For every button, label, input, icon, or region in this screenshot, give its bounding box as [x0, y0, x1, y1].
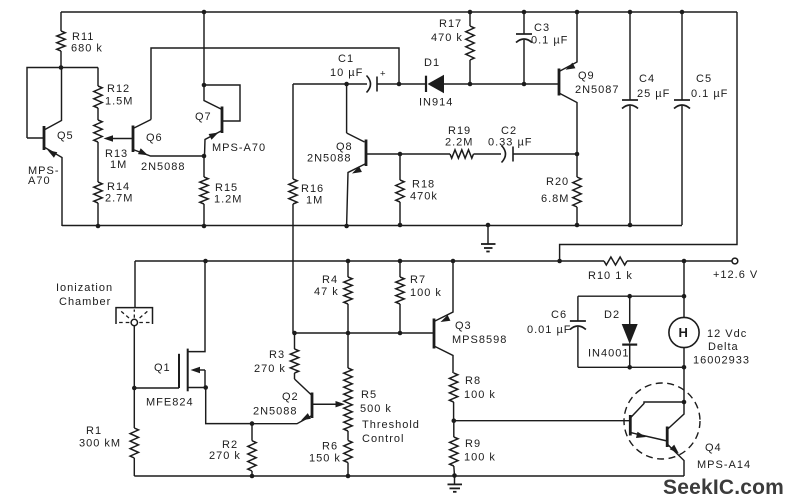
ionization chamber [56, 261, 153, 326]
svg-text:C2: C2 [501, 125, 517, 137]
svg-text:C6: C6 [551, 309, 567, 321]
svg-text:100 k: 100 k [464, 389, 496, 401]
node C1/D1/Q6-collector wire [397, 82, 402, 87]
svg-text:IN4001: IN4001 [588, 348, 629, 360]
node R8 bottom / R9 top / Q4 base wire [452, 418, 457, 423]
transistor Q1 MFE824 (MOSFET) [134, 261, 205, 409]
svg-text:Q6: Q6 [146, 132, 163, 144]
wire C6/D2 bottom branch [578, 366, 684, 368]
resistor R20 6.8M [541, 154, 581, 225]
resistor R1 300 kM [79, 388, 139, 476]
node Q1 source [203, 385, 208, 390]
node R3 top / base wire [292, 331, 297, 336]
svg-text:1M: 1M [110, 159, 127, 171]
node C4 top [628, 10, 633, 15]
svg-text:C5: C5 [696, 73, 712, 85]
wire C6/D2 top branch [578, 295, 684, 297]
svg-text:2N5088: 2N5088 [307, 153, 352, 165]
svg-text:R17: R17 [439, 18, 462, 30]
svg-text:Threshold: Threshold [362, 419, 420, 431]
capacitor C2 0.33uF [488, 125, 577, 163]
svg-text:100 k: 100 k [464, 452, 496, 464]
node Q9 emitter on +V rail [575, 10, 580, 15]
wire bottom ground rail [134, 475, 684, 477]
transistor Q4 MPS-A14 (Darlington pair) [624, 383, 751, 476]
diode D2 IN4001 [588, 296, 638, 367]
wire main vertical from top rail to Q7 [203, 12, 205, 85]
node R14 bottom on lower rail [96, 224, 101, 229]
wiper arrow from Q2 base into R5 [312, 403, 337, 405]
wiper arrow from Q6 base into R13 [107, 138, 133, 140]
node Q6/Q7 emitters / R15 top [202, 154, 207, 159]
resistor R18 470k [396, 154, 438, 225]
svg-text:R8: R8 [465, 375, 481, 387]
svg-text:MFE824: MFE824 [146, 397, 194, 409]
svg-text:A70: A70 [28, 175, 51, 187]
node horn bottom / Q4 collector branch [682, 365, 687, 370]
svg-text:R20: R20 [546, 176, 569, 188]
svg-text:300 kM: 300 kM [79, 438, 121, 450]
svg-text:+: + [380, 69, 387, 80]
resistor R3 270k [254, 333, 299, 379]
wire from R11 bottom node to Q5 base and R12 top [27, 68, 98, 139]
node R10 / horn branch [682, 259, 687, 264]
transistor Q9 2N5087 (PNP) [559, 12, 620, 154]
svg-text:D1: D1 [424, 57, 440, 69]
svg-text:R3: R3 [269, 349, 285, 361]
node D1/R17 [468, 82, 473, 87]
node R4 bottom / R5 top / base wire [346, 331, 351, 336]
ground (upper rail) [481, 223, 496, 252]
svg-text:2N5088: 2N5088 [253, 406, 298, 418]
svg-text:R11: R11 [72, 31, 94, 43]
svg-text:C1: C1 [338, 53, 354, 65]
wire R3/R4/R7 node to Q3 base [295, 332, 435, 334]
node R20 bottom on lower rail [575, 223, 580, 228]
node lower rail / chamber branch [203, 259, 208, 264]
svg-text:R14: R14 [107, 181, 130, 193]
capacitor C1 10uF [293, 53, 399, 93]
capacitor C5 0.1uF [674, 12, 728, 225]
svg-text:47 k: 47 k [314, 286, 339, 298]
node Q9 collector / R20 top [575, 152, 580, 157]
resistor R17 470k [431, 12, 474, 84]
svg-text:R19: R19 [448, 125, 471, 137]
svg-text:6.8M: 6.8M [541, 193, 569, 205]
resistor R12 1.5M [94, 68, 134, 109]
svg-text:IN914: IN914 [419, 97, 453, 109]
svg-text:MPS-A70: MPS-A70 [212, 142, 266, 154]
node R6 bottom on bottom rail [346, 474, 351, 479]
svg-text:C3: C3 [534, 22, 550, 34]
svg-text:+12.6 V: +12.6 V [713, 269, 758, 281]
transistor Q3 MPS8598 (PNP) [434, 261, 507, 373]
svg-text:C4: C4 [639, 73, 655, 85]
node Q3 emitter on +12.6V rail [451, 259, 456, 264]
transistor Q2 2N5088 (NPN, mirrored) [252, 379, 345, 424]
svg-text:MPS-A14: MPS-A14 [697, 459, 751, 471]
capacitor C6 0.01uF [527, 296, 586, 367]
svg-text:2.7M: 2.7M [105, 193, 133, 205]
node Q4 collectors [682, 400, 687, 405]
svg-text:100 k: 100 k [410, 287, 442, 299]
node C5 top [680, 10, 685, 15]
resistor R10 1k [588, 257, 633, 282]
svg-text:Q2: Q2 [282, 391, 299, 403]
wire R8/R9 node to Q4 base [454, 420, 631, 422]
svg-text:R5: R5 [361, 389, 377, 401]
node R9 bottom / ground [452, 473, 457, 478]
svg-text:R6: R6 [322, 441, 338, 453]
svg-text:1.5M: 1.5M [105, 96, 133, 108]
svg-text:270 k: 270 k [209, 450, 241, 462]
node C3 top on +V rail [522, 10, 527, 15]
svg-text:R1: R1 [86, 425, 102, 437]
node horn top branch [682, 294, 687, 299]
svg-text:R9: R9 [465, 438, 481, 450]
svg-text:2.2M: 2.2M [445, 137, 473, 149]
svg-text:2N5088: 2N5088 [141, 161, 186, 173]
svg-text:1.2M: 1.2M [214, 194, 242, 206]
node R11 bottom / Q5 collector [59, 65, 64, 70]
svg-text:R7: R7 [410, 274, 426, 286]
horn H 12Vdc Delta 16002933 [669, 261, 750, 367]
diode D1 IN914 [399, 57, 470, 109]
resistor R2 270k [209, 424, 256, 476]
svg-text:2N5087: 2N5087 [575, 84, 620, 96]
svg-text:Q7: Q7 [195, 111, 212, 123]
terminal +12.6 V [713, 258, 758, 281]
svg-text:Q9: Q9 [578, 70, 595, 82]
resistor R4 47k [314, 261, 352, 333]
svg-text:R10 1 k: R10 1 k [588, 270, 633, 282]
transistor Q8 2N5088 (NPN, mirrored) [307, 84, 400, 226]
node C4 bottom [628, 223, 633, 228]
wire chamber to R1/gate node [133, 326, 135, 388]
svg-text:0.01 µF: 0.01 µF [527, 324, 572, 336]
node top rail / main vertical [202, 10, 207, 15]
svg-text:Ionization: Ionization [56, 282, 113, 294]
wire top +V rail [61, 11, 737, 13]
wire +12.6V distribution rail [135, 260, 604, 262]
svg-text:0.1 µF: 0.1 µF [531, 35, 568, 47]
node Q8 base / R18 top / R19 [398, 152, 403, 157]
svg-text:10 µF: 10 µF [330, 67, 363, 79]
node R15 bottom on lower rail [202, 224, 207, 229]
svg-text:R12: R12 [107, 83, 130, 95]
wire upper-section ground rail [62, 225, 682, 227]
svg-text:H: H [679, 325, 688, 340]
svg-text:SeekIC.com: SeekIC.com [663, 476, 784, 499]
transistor Q7 MPS-A70 (PNP, diode-connected) [195, 85, 266, 156]
svg-text:MPS8598: MPS8598 [452, 334, 507, 346]
svg-text:270 k: 270 k [254, 363, 286, 375]
capacitor C4 25uF [622, 12, 670, 225]
resistor R16 1M [289, 84, 324, 333]
node Q2 emitter / R2 top [250, 421, 255, 426]
resistor R15 1.2M [200, 156, 243, 226]
resistor R5 500k Threshold Control (pot) [344, 333, 420, 445]
svg-text:0.1 µF: 0.1 µF [691, 88, 728, 100]
wire right-side feed from top rail down to +12.6V line [560, 12, 737, 261]
svg-text:D2: D2 [604, 309, 620, 321]
transistor Q5 MPS-A70 (PNP) [27, 68, 74, 227]
svg-text:680 k: 680 k [71, 43, 103, 55]
node C3 bottom / Q9 base wire [522, 82, 527, 87]
svg-text:Chamber: Chamber [59, 296, 111, 308]
svg-text:150 k: 150 k [309, 453, 341, 465]
wire Q1 source to Q2 emitter node [206, 388, 252, 424]
svg-text:R18: R18 [412, 179, 435, 191]
svg-text:R4: R4 [322, 274, 338, 286]
ground (bottom rail) [448, 476, 463, 492]
wire Q6 collector up and over to C1/D1 node [151, 48, 399, 120]
node Q7 collector-base [202, 83, 207, 88]
wire Q7 collector-base tie loop [204, 85, 240, 121]
capacitor C3 0.1uF [516, 12, 568, 84]
svg-text:R15: R15 [215, 182, 238, 194]
node R7 top on +12.6V rail [398, 259, 403, 264]
resistor R9 100k [450, 421, 496, 476]
node R4 top on +12.6V rail [346, 259, 351, 264]
node R2 bottom on bottom rail [250, 474, 255, 479]
resistor R8 100k [449, 373, 496, 421]
svg-text:Q8: Q8 [336, 141, 353, 153]
resistor R14 2.7M [94, 181, 134, 226]
node +V feed on +12.6V rail [557, 259, 562, 264]
resistor R6 150k [309, 440, 352, 476]
node C1/Q8 collector [344, 82, 349, 87]
svg-text:12 Vdc: 12 Vdc [707, 328, 747, 340]
svg-text:Q3: Q3 [455, 320, 472, 332]
resistor R19 2.2M [400, 125, 501, 158]
node D2 anode [627, 294, 632, 299]
node R17 top on +V rail [468, 10, 473, 15]
transistor Q6 2N5088 (NPN) [104, 120, 205, 174]
resistor R13 1M (pot with wiper from Q6 base) [94, 108, 128, 182]
svg-text:0.33 µF: 0.33 µF [488, 137, 533, 149]
node R1 top / Q1 gate [132, 386, 137, 391]
node R18 bottom on lower rail [398, 223, 403, 228]
svg-text:470 k: 470 k [431, 32, 463, 44]
svg-text:R16: R16 [301, 183, 324, 195]
wire horn node down to Q4 collectors [683, 367, 685, 402]
node D2 cathode [627, 365, 632, 370]
svg-text:25 µF: 25 µF [637, 88, 670, 100]
resistor R11 680k [57, 12, 103, 68]
svg-text:500 k: 500 k [360, 403, 392, 415]
node R7 bottom / base wire [398, 331, 403, 336]
resistor R7 100k [396, 261, 442, 333]
svg-text:Q5: Q5 [57, 130, 74, 142]
svg-text:470k: 470k [410, 191, 438, 203]
svg-text:Q1: Q1 [154, 362, 171, 374]
svg-text:Q4: Q4 [705, 442, 722, 454]
wire from D1 node to Q9 base [470, 83, 559, 85]
svg-text:Delta: Delta [708, 341, 739, 353]
svg-text:Control: Control [362, 433, 404, 445]
node Q8 emitter on lower rail [344, 224, 349, 229]
svg-text:1M: 1M [306, 195, 323, 207]
svg-text:16002933: 16002933 [693, 355, 750, 367]
